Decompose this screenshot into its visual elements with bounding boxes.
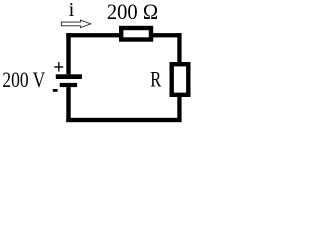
svg-text:R: R [150,67,161,92]
wire bottom (return path from R to source) [66,118,181,122]
voltage source V1 200 V: positive (long) plate [56,74,82,79]
wire left upper (from top wire down to battery + plate) [66,33,70,74]
wire top (node between source and 200-ohm resistor, continues to R) [66,33,181,37]
wire left lower (from battery - plate down to bottom wire) [66,87,70,122]
wire right upper (from top wire down to resistor R) [177,33,181,62]
resistor 200 ohm (box body, top branch) [121,28,151,40]
polarity mark - [53,89,58,92]
svg-text:200 Ω: 200 Ω [107,0,158,24]
svg-text:200 V: 200 V [2,67,45,92]
svg-text:i: i [69,0,75,21]
polarity mark + (vertical stroke) [58,62,59,72]
resistor R (box body, right branch) [172,64,189,95]
polarity mark + (horizontal stroke) [54,66,63,67]
voltage source V1 200 V: negative (short) plate [60,83,77,87]
wire right lower (from resistor R down to bottom wire) [177,97,181,122]
current direction arrow (hollow right arrow) [61,20,91,28]
